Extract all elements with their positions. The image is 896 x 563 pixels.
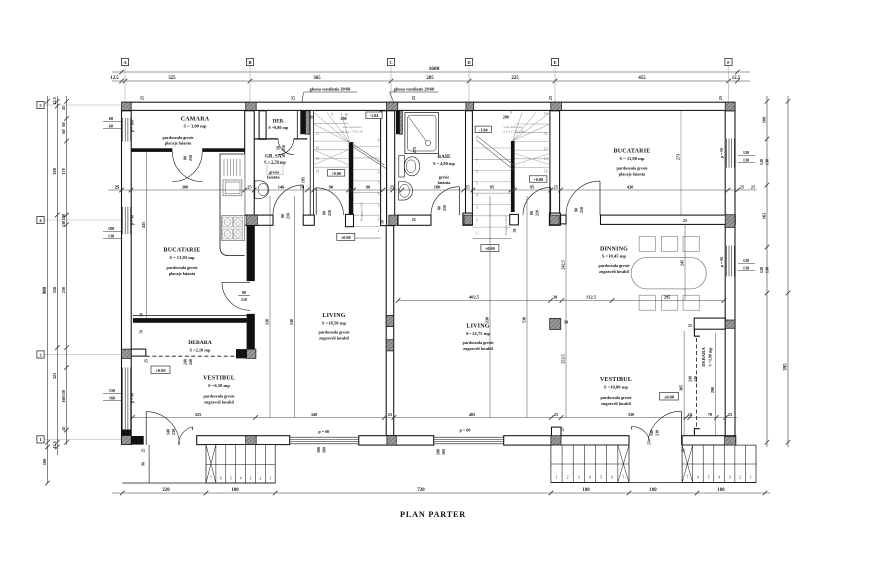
svg-text:placaje faianta: placaje faianta <box>169 271 196 276</box>
svg-text:3: 3 <box>378 204 380 208</box>
camara bottom wall <box>131 148 172 152</box>
window bottom right unit p=60 <box>434 436 504 438</box>
exterior stairs center-left <box>206 445 275 483</box>
svg-text:70: 70 <box>140 330 144 334</box>
svg-text:240: 240 <box>688 376 693 382</box>
stairwell right: treads down flight <box>515 123 550 125</box>
ventilation shaft right <box>396 111 400 134</box>
svg-text:100: 100 <box>762 116 767 123</box>
svg-text:140: 140 <box>166 429 171 435</box>
debara L top thin line <box>133 315 247 317</box>
debara L right wall <box>247 314 255 349</box>
svg-text:530: 530 <box>289 319 294 325</box>
svg-text:placaje faianta: placaje faianta <box>165 141 192 146</box>
svg-text:14: 14 <box>316 169 320 173</box>
stairwell left: treads down flight <box>314 123 349 125</box>
svg-text:210: 210 <box>241 297 247 302</box>
debara R sliding door jambs <box>694 329 700 336</box>
svg-text:BUCATARIE: BUCATARIE <box>164 248 201 254</box>
svg-text:9: 9 <box>510 111 512 115</box>
svg-text:ghena ventilatie 20/60: ghena ventilatie 20/60 <box>394 87 436 92</box>
svg-text:180: 180 <box>61 214 66 220</box>
dining table <box>631 258 706 289</box>
svg-text:+0.00: +0.00 <box>533 177 543 182</box>
svg-text:10: 10 <box>544 112 548 116</box>
svg-text:325: 325 <box>195 412 202 417</box>
svg-text:3: 3 <box>476 206 478 210</box>
svg-text:p = 90: p = 90 <box>130 393 134 403</box>
right dimension chain outer 395 <box>787 96 789 447</box>
interior dim line y300.5 right <box>398 300 724 302</box>
gr.san door 80/210 <box>273 185 303 215</box>
svg-text:430: 430 <box>627 184 634 189</box>
gr.san right wall thin <box>309 111 311 215</box>
svg-text:160: 160 <box>109 395 115 400</box>
svg-text:25: 25 <box>411 96 416 100</box>
svg-text:DEBARA: DEBARA <box>188 340 212 346</box>
svg-text:DEB.: DEB. <box>273 120 285 125</box>
svg-text:p = 60: p = 60 <box>460 428 471 433</box>
svg-text:210: 210 <box>281 145 286 151</box>
stairwell left: treads up flight <box>354 146 381 148</box>
svg-text:25: 25 <box>145 359 149 363</box>
svg-text:253.5: 253.5 <box>561 354 566 363</box>
svg-text:60: 60 <box>109 116 113 121</box>
svg-text:11: 11 <box>316 132 320 136</box>
svg-text:195: 195 <box>300 177 305 183</box>
svg-text:6: 6 <box>611 476 613 480</box>
svg-text:165: 165 <box>762 212 767 219</box>
svg-text:120: 120 <box>759 267 764 273</box>
svg-text:330: 330 <box>628 412 635 417</box>
svg-text:395: 395 <box>784 363 789 371</box>
kitchen door right 90/210 <box>566 181 600 215</box>
dining chairs <box>639 236 655 251</box>
svg-text:45: 45 <box>61 106 66 110</box>
svg-text:BUCATARIE: BUCATARIE <box>614 149 651 155</box>
svg-text:13: 13 <box>544 157 548 161</box>
svg-text:273: 273 <box>676 154 681 160</box>
svg-text:S = 4,80 mp: S = 4,80 mp <box>433 161 456 166</box>
svg-text:295: 295 <box>664 295 671 300</box>
svg-text:300: 300 <box>182 184 189 189</box>
svg-text:130: 130 <box>108 233 114 238</box>
svg-text:80: 80 <box>437 206 442 210</box>
svg-text:9: 9 <box>331 113 333 117</box>
wall B vertical upper (camara divider) <box>245 111 255 215</box>
svg-text:25: 25 <box>718 96 723 100</box>
svg-text:210: 210 <box>442 205 447 211</box>
svg-text:180: 180 <box>316 447 321 453</box>
svg-text:p = 60: p = 60 <box>318 429 329 434</box>
svg-text:25: 25 <box>548 96 553 100</box>
svg-text:210: 210 <box>579 207 584 213</box>
svg-text:90: 90 <box>574 208 579 212</box>
left dimension chain middle <box>56 96 58 455</box>
svg-text:S = 13,05 mp: S = 13,05 mp <box>169 255 195 260</box>
svg-text:1: 1 <box>556 476 558 480</box>
svg-text:50: 50 <box>381 220 385 224</box>
wall B vertical lower (bucatarie-living divider) <box>247 225 255 282</box>
svg-text:3: 3 <box>729 476 731 480</box>
svg-text:210: 210 <box>188 155 193 161</box>
baie toilet <box>399 156 405 178</box>
right outer wall <box>725 111 735 448</box>
svg-text:305: 305 <box>679 385 684 391</box>
svg-text:pardoseala gresie: pardoseala gresie <box>617 166 648 171</box>
svg-text:13: 13 <box>316 157 320 161</box>
svg-text:pardoseala gresie: pardoseala gresie <box>601 395 632 400</box>
svg-text:250: 250 <box>61 287 66 293</box>
svg-text:6: 6 <box>697 476 699 480</box>
svg-text:25: 25 <box>561 428 565 432</box>
right dimension chain inner <box>766 96 768 447</box>
outer top wall <box>122 102 735 110</box>
party wall C: stair zone two leaves <box>381 111 387 226</box>
svg-text:130: 130 <box>765 159 770 165</box>
svg-text:pardoseala gresie: pardoseala gresie <box>204 394 235 399</box>
svg-text:100: 100 <box>42 458 47 465</box>
svg-text:160: 160 <box>61 396 66 402</box>
svg-text:LIVING: LIVING <box>322 313 345 319</box>
svg-text:B: B <box>248 60 251 65</box>
svg-text:2: 2 <box>259 477 261 481</box>
svg-text:8: 8 <box>476 136 478 140</box>
svg-text:2: 2 <box>567 476 569 480</box>
stairwell right: winder diagonals <box>513 113 550 142</box>
svg-text:S= 22,75 mp: S= 22,75 mp <box>466 331 491 336</box>
bottom wall left unit <box>122 436 143 445</box>
svg-text:5: 5 <box>600 476 602 480</box>
svg-text:245: 245 <box>680 260 685 266</box>
svg-text:12: 12 <box>316 146 320 150</box>
svg-text:S =18,50 mp: S =18,50 mp <box>322 321 347 326</box>
svg-text:80: 80 <box>322 211 327 215</box>
svg-text:6: 6 <box>476 170 478 174</box>
svg-text:140: 140 <box>278 184 285 189</box>
stairwell left: break X down flight <box>314 150 349 165</box>
svg-text:S =6,50 mp: S =6,50 mp <box>208 383 230 388</box>
svg-text:402.5: 402.5 <box>469 295 480 300</box>
svg-text:80: 80 <box>183 156 188 160</box>
svg-text:50: 50 <box>513 229 517 233</box>
svg-text:25: 25 <box>142 449 146 453</box>
svg-text:VESTIBUL: VESTIBUL <box>600 377 632 383</box>
freestanding pier 30x30 <box>550 318 561 329</box>
svg-text:330: 330 <box>485 317 490 323</box>
svg-text:S =10,00 mp: S =10,00 mp <box>604 385 629 390</box>
left outer wall <box>122 111 132 445</box>
svg-text:pardoseala gresie: pardoseala gresie <box>319 330 350 335</box>
svg-text:240: 240 <box>188 359 193 365</box>
svg-text:180: 180 <box>436 449 441 455</box>
debara L bottom stub <box>131 349 146 356</box>
svg-text:220: 220 <box>162 488 170 493</box>
svg-text:12: 12 <box>544 147 548 151</box>
svg-text:±0.00: ±0.00 <box>341 235 351 240</box>
svg-text:1: 1 <box>269 477 271 481</box>
svg-text:12.5: 12.5 <box>52 440 57 448</box>
svg-text:S =1,90 mp: S =1,90 mp <box>708 347 713 367</box>
stairwell left: center rail <box>349 142 354 214</box>
left dimension chain outer 900 <box>47 96 49 483</box>
svg-text:S = 2,70 mp: S = 2,70 mp <box>264 160 287 165</box>
bottom wall right unit <box>504 436 629 445</box>
svg-text:120: 120 <box>743 150 749 155</box>
svg-text:S =2,10 mp: S =2,10 mp <box>190 348 211 353</box>
svg-text:132.5: 132.5 <box>586 295 597 300</box>
svg-text:210: 210 <box>286 213 291 219</box>
svg-text:E: E <box>553 60 556 65</box>
svg-text:25: 25 <box>291 96 296 100</box>
svg-text:4: 4 <box>378 192 380 196</box>
svg-text:160: 160 <box>441 449 446 455</box>
baie door 80/210 <box>431 187 459 215</box>
svg-text:S = 11,80 mp: S = 11,80 mp <box>619 156 645 161</box>
kitchen counter left unit <box>220 154 245 256</box>
svg-text:faianta: faianta <box>267 175 280 180</box>
kitchen sink square <box>223 180 242 196</box>
svg-text:12.5: 12.5 <box>52 96 57 104</box>
svg-text:70: 70 <box>310 116 314 120</box>
svg-text:DINNING: DINNING <box>600 247 628 253</box>
svg-text:130: 130 <box>743 265 749 270</box>
svg-text:280: 280 <box>710 387 715 393</box>
svg-text:7: 7 <box>476 160 478 164</box>
svg-text:PLAN PARTER: PLAN PARTER <box>400 510 466 519</box>
svg-text:180: 180 <box>582 488 590 493</box>
svg-text:25: 25 <box>139 96 144 100</box>
svg-text:60: 60 <box>61 122 66 126</box>
party wall C: lower single leaf <box>386 226 394 436</box>
debara R sliding door dashed <box>696 338 698 427</box>
window right wall lower 120/130 <box>725 246 727 277</box>
stairwell left: winder diagonals <box>314 113 350 144</box>
svg-text:5: 5 <box>476 182 478 186</box>
svg-text:2: 2 <box>739 476 741 480</box>
svg-text:1: 1 <box>378 229 380 233</box>
svg-text:140: 140 <box>649 430 654 436</box>
svg-text:180: 180 <box>108 226 114 231</box>
svg-text:325: 325 <box>52 372 57 379</box>
hall door right 80/210 <box>523 187 551 215</box>
svg-text:p = 90: p = 90 <box>720 257 724 267</box>
svg-text:C: C <box>389 60 392 65</box>
svg-text:pardoseala gresie: pardoseala gresie <box>463 340 494 345</box>
debara L sliding door dashed <box>146 355 236 357</box>
window camara left wall 60/60 <box>122 118 124 142</box>
svg-text:pardoseala gresie: pardoseala gresie <box>167 265 198 270</box>
svg-text:5: 5 <box>378 181 380 185</box>
svg-text:180: 180 <box>717 488 725 493</box>
window size labels right margin <box>738 155 755 157</box>
svg-text:242.5: 242.5 <box>561 260 566 269</box>
top dimension chain <box>112 80 750 82</box>
debara R top wall <box>694 318 725 329</box>
svg-text:325: 325 <box>168 76 176 81</box>
svg-text:25: 25 <box>115 184 119 189</box>
svg-text:240: 240 <box>183 359 188 365</box>
svg-text:zugraveli lavabil: zugraveli lavabil <box>599 269 629 274</box>
svg-text:200: 200 <box>340 116 346 121</box>
deb/gr.san divider thin wall <box>254 138 278 140</box>
svg-text:170: 170 <box>61 168 66 174</box>
svg-text:900: 900 <box>43 286 48 294</box>
debara L top wall <box>133 318 247 323</box>
svg-text:240: 240 <box>693 376 698 382</box>
left dimension chain inner <box>66 96 68 445</box>
svg-text:S =0,80 mp: S =0,80 mp <box>268 125 289 130</box>
svg-text:gresie: gresie <box>439 175 450 180</box>
svg-text:zugraveli lavabil: zugraveli lavabil <box>319 335 349 340</box>
stairwell right: break line <box>476 140 513 170</box>
svg-text:+0.00: +0.00 <box>331 171 341 176</box>
window size labels left margin <box>103 121 121 123</box>
svg-text:90: 90 <box>242 290 246 295</box>
svg-text:25: 25 <box>682 449 686 453</box>
svg-text:80: 80 <box>280 214 285 218</box>
svg-text:7: 7 <box>210 477 212 481</box>
svg-text:25: 25 <box>740 184 744 189</box>
baie shower <box>405 113 439 154</box>
bottom dimension line <box>112 492 770 494</box>
svg-text:1600: 1600 <box>429 66 440 72</box>
svg-text:pardoseala gresie: pardoseala gresie <box>163 135 194 140</box>
window bucatarie left wall 180/130 <box>122 207 124 234</box>
svg-text:zugraveli lavabil: zugraveli lavabil <box>204 399 234 404</box>
svg-text:zugraveli lavabil: zugraveli lavabil <box>463 346 493 351</box>
svg-text:-1.04: -1.04 <box>370 113 380 118</box>
svg-text:130: 130 <box>743 157 749 162</box>
kitchen door left 90/210 <box>222 282 250 310</box>
stairwell right: center rail <box>511 141 515 212</box>
deb right wall thin <box>296 111 298 140</box>
window right wall upper 120/130 <box>725 139 727 168</box>
window sill stub near E <box>552 427 562 436</box>
deb closet left wall <box>259 111 266 140</box>
svg-text:180: 180 <box>231 488 239 493</box>
svg-text:1: 1 <box>750 476 752 480</box>
stairwell right: level labels <box>475 126 491 133</box>
top dimension line 1600 <box>112 71 750 73</box>
svg-text:210: 210 <box>327 210 332 216</box>
baie sink <box>399 182 413 201</box>
svg-text:120: 120 <box>759 159 764 165</box>
svg-text:zugraveli lavabil: zugraveli lavabil <box>601 401 631 406</box>
svg-text:faianta: faianta <box>438 180 451 185</box>
gr.san shower tray faint <box>267 164 283 175</box>
svg-text:180: 180 <box>649 488 657 493</box>
interior dim line y417.5 <box>131 417 737 419</box>
svg-text:7: 7 <box>623 476 625 480</box>
svg-text:4: 4 <box>240 477 242 481</box>
grid row markers 5,4,2,1 <box>44 104 122 106</box>
svg-text:340: 340 <box>311 412 318 417</box>
svg-text:5: 5 <box>230 477 232 481</box>
deb small double-swing door <box>278 139 294 155</box>
svg-text:pardoseala gresie: pardoseala gresie <box>599 263 630 268</box>
svg-text:3: 3 <box>250 477 252 481</box>
front door left 140/230 double leaf <box>145 412 147 445</box>
window bottom left unit p=60 <box>290 436 359 438</box>
svg-text:8: 8 <box>378 138 380 142</box>
svg-text:285: 285 <box>426 76 434 81</box>
svg-text:±0.00: ±0.00 <box>155 368 166 373</box>
vertical dim lines living areas <box>269 196 271 418</box>
svg-text:720: 720 <box>417 488 425 493</box>
svg-text:25: 25 <box>683 218 687 223</box>
stairwell right: break X down flight <box>515 153 550 164</box>
svg-text:p = 90: p = 90 <box>720 148 724 158</box>
kitchen right bottom wall <box>601 215 733 224</box>
gr.san toilet <box>255 181 269 199</box>
svg-text:ghena ventilatie 20/60: ghena ventilatie 20/60 <box>310 87 352 92</box>
svg-text:DEBARA: DEBARA <box>701 347 706 367</box>
interior dim line y190 <box>108 189 757 191</box>
svg-text:150: 150 <box>61 390 66 396</box>
svg-text:225: 225 <box>511 76 519 81</box>
right stair left wall D <box>466 111 473 213</box>
kitchen sink drainer <box>223 159 225 176</box>
kitchen stove 4 burners <box>222 216 245 241</box>
svg-text:-1.04: -1.04 <box>479 127 489 132</box>
svg-text:90: 90 <box>142 462 146 466</box>
svg-text:6: 6 <box>220 477 222 481</box>
svg-text:120: 120 <box>743 258 749 263</box>
svg-text:60: 60 <box>61 129 66 133</box>
svg-text:45: 45 <box>61 426 66 430</box>
svg-text:4: 4 <box>476 194 478 198</box>
right stair right wall E <box>550 111 560 213</box>
stairwell right: treads up flight <box>473 147 511 149</box>
svg-text:25: 25 <box>412 217 416 222</box>
svg-text:160: 160 <box>321 447 326 453</box>
svg-text:5: 5 <box>708 476 710 480</box>
ventilation shaft left <box>300 111 305 134</box>
stairwell left: level labels <box>366 112 382 119</box>
svg-text:50: 50 <box>276 146 281 150</box>
front door right 140/230 double leaf <box>680 411 682 445</box>
svg-text:6: 6 <box>378 171 380 175</box>
wall y215 left unit segments <box>245 215 273 225</box>
svg-text:200: 200 <box>503 114 509 119</box>
pier blocks on grid <box>122 102 132 110</box>
svg-text:130: 130 <box>61 221 66 227</box>
svg-text:350: 350 <box>52 286 57 293</box>
svg-text:275: 275 <box>412 147 417 153</box>
svg-text:F: F <box>727 60 730 65</box>
grid letter markers A-F <box>124 66 126 102</box>
svg-text:12.5: 12.5 <box>110 76 119 81</box>
svg-text:1: 1 <box>476 232 478 236</box>
svg-text:12.5: 12.5 <box>732 76 741 81</box>
svg-text:435: 435 <box>141 222 146 228</box>
svg-text:130: 130 <box>765 267 770 273</box>
svg-text:4: 4 <box>718 476 720 480</box>
svg-text:3: 3 <box>578 476 580 480</box>
exterior stairs right <box>682 445 756 482</box>
svg-text:210: 210 <box>535 210 540 216</box>
svg-text:S = 3,00 mp: S = 3,00 mp <box>183 124 206 129</box>
svg-text:S =10,45 mp: S =10,45 mp <box>602 254 627 259</box>
svg-text:60: 60 <box>109 123 113 128</box>
svg-text:530: 530 <box>522 317 527 323</box>
svg-text:p = 90: p = 90 <box>130 215 134 225</box>
svg-text:14: 14 <box>544 169 548 173</box>
svg-text:455: 455 <box>638 76 646 81</box>
porch left <box>148 445 150 483</box>
svg-text:11: 11 <box>544 132 548 136</box>
